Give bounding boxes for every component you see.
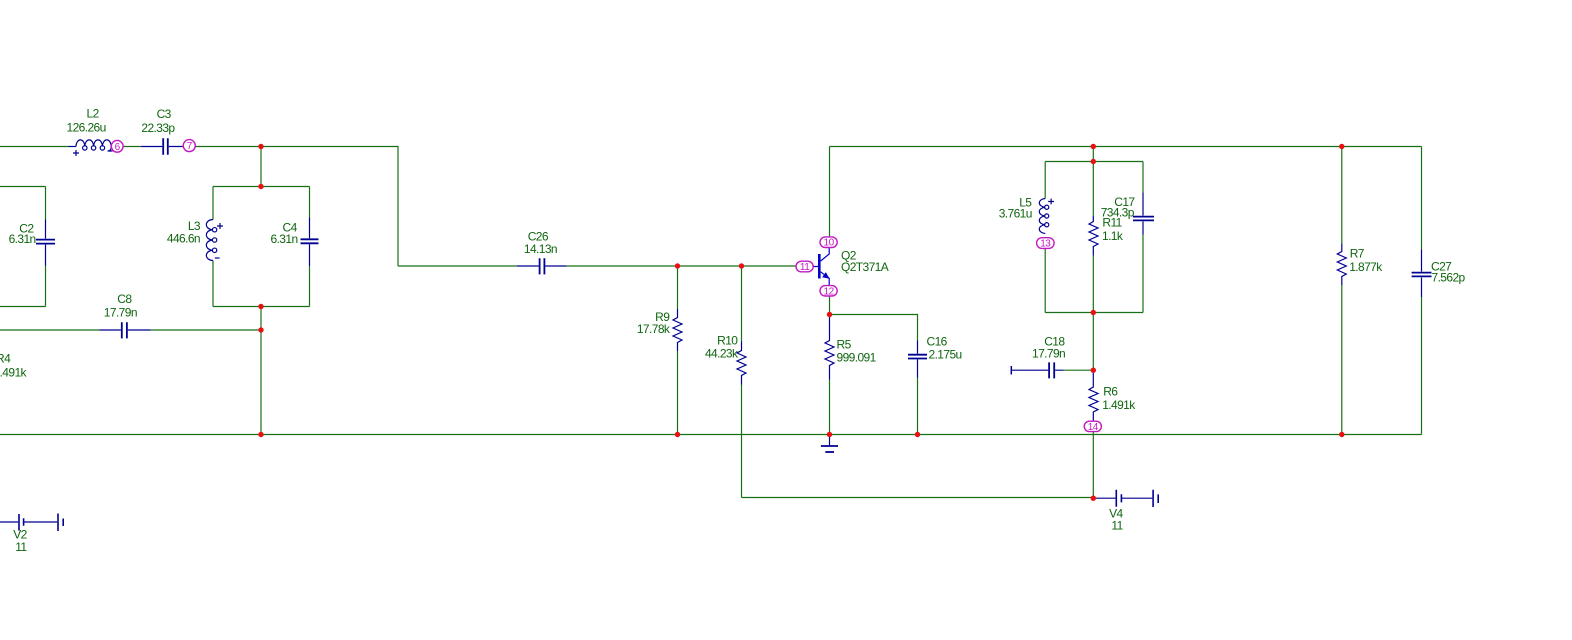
capacitor C27 — [1412, 250, 1432, 298]
wire box1 top edge — [0, 186, 46, 188]
resistor R10 — [737, 342, 746, 385]
node 13 — [1037, 238, 1055, 249]
node 10 — [820, 237, 837, 248]
wire box2 top edge — [213, 186, 310, 188]
wire top-right rail — [830, 146, 1422, 148]
wire C18 to node — [1064, 369, 1094, 371]
wire C16 lower — [917, 378, 919, 435]
svg-text:R6: R6 — [1103, 384, 1118, 398]
svg-text:14.13n: 14.13n — [524, 242, 557, 256]
svg-text:7.562p: 7.562p — [1432, 270, 1466, 284]
wire box1 right upper — [45, 187, 47, 220]
svg-text:17.78k: 17.78k — [637, 322, 671, 336]
wire node 7 to top junction — [196, 146, 399, 148]
svg-text:999.091: 999.091 — [837, 351, 877, 365]
svg-text:C16: C16 — [927, 334, 948, 348]
wire R10 to V4 node — [742, 497, 1094, 499]
inductor L5 — [1039, 199, 1054, 234]
wire box3 right lower — [1142, 235, 1144, 313]
svg-text:11: 11 — [1111, 519, 1123, 533]
svg-text:6.31n: 6.31n — [271, 232, 298, 246]
wire box3 top edge — [1045, 161, 1143, 163]
wire box2 right lower — [309, 266, 311, 307]
inductor L2 — [69, 140, 113, 156]
junction R7 top — [1339, 144, 1344, 149]
svg-text:10: 10 — [824, 238, 835, 249]
wire box2 bottom to C8 node — [260, 307, 262, 331]
svg-text:126.26u: 126.26u — [67, 121, 106, 135]
node 11 — [796, 261, 813, 272]
junction R9 bottom rail — [675, 432, 680, 437]
svg-text:1.491k: 1.491k — [1102, 398, 1136, 412]
wire top-left rail drop — [397, 147, 399, 267]
wire bottom rail — [0, 434, 1422, 436]
wire box3 middle upper — [1092, 162, 1094, 217]
wire node 12 to R5 junction — [829, 296, 831, 315]
svg-text:1.877k: 1.877k — [1349, 260, 1383, 274]
svg-text:11: 11 — [15, 540, 27, 554]
svg-text:Q2T371A: Q2T371A — [841, 260, 889, 274]
junction C18 node — [1091, 368, 1096, 373]
svg-text:R5: R5 — [837, 338, 852, 352]
battery V2 — [0, 514, 63, 532]
node 12 — [820, 286, 837, 296]
svg-text:R11: R11 — [1102, 216, 1122, 230]
resistor R5 — [825, 316, 834, 380]
resistor R9 — [673, 309, 682, 351]
capacitor C16 — [908, 341, 927, 378]
wire R9 lower lead — [677, 351, 679, 435]
wire box3 right upper — [1142, 162, 1144, 193]
wire box3 left lower — [1044, 249, 1046, 313]
junction at top rail x261 — [258, 144, 263, 149]
capacitor C17 — [1133, 193, 1154, 235]
junction R10 top — [739, 263, 744, 268]
wire C8 right — [151, 329, 262, 331]
junction bottom rail x261 — [258, 432, 263, 437]
junction top rail x1093 — [1091, 144, 1096, 149]
resistor R7 — [1337, 244, 1346, 286]
svg-text:R4: R4 — [0, 351, 11, 365]
svg-text:446.6n: 446.6n — [167, 231, 200, 245]
junction R7 bottom — [1339, 432, 1344, 437]
svg-text:11: 11 — [800, 262, 810, 273]
junction box2 bottom — [258, 304, 263, 309]
wire box2 right upper — [309, 187, 311, 218]
wire right riser — [1092, 147, 1094, 162]
junction box2 top — [258, 184, 263, 189]
junction C16 bottom rail — [915, 432, 920, 437]
svg-text:R7: R7 — [1350, 246, 1365, 260]
svg-text:2.175u: 2.175u — [929, 348, 962, 362]
wire box2 left lower — [212, 261, 214, 307]
wire box3 bottom to C18 node — [1092, 313, 1094, 371]
svg-text:14: 14 — [1088, 422, 1099, 433]
wire R9 upper lead — [677, 266, 679, 309]
svg-text:17.79n: 17.79n — [104, 306, 137, 320]
junction R5 C16 node — [827, 312, 832, 317]
junction ground rail — [827, 432, 832, 437]
capacitor C4 — [301, 218, 319, 267]
inductor L3 — [206, 220, 223, 261]
capacitor C2 — [36, 220, 55, 266]
wire Q2 collector riser — [829, 147, 831, 238]
node 6 — [111, 140, 123, 152]
wire C27 lower — [1421, 297, 1423, 435]
junction box3 top — [1091, 159, 1096, 164]
wire to C26 — [398, 265, 517, 267]
junction box3 bottom — [1091, 310, 1096, 315]
capacitor C3 — [141, 138, 183, 155]
wire R5 lower lead — [829, 380, 831, 435]
wire input lead left of L2 — [0, 146, 69, 148]
wire box1 bottom edge — [0, 306, 46, 308]
capacitor C18 — [1011, 362, 1064, 378]
wire box3 left upper — [1044, 162, 1046, 199]
wire R7 lower lead — [1341, 285, 1343, 435]
wire box3 bottom edge — [1045, 312, 1143, 314]
svg-text:44.23k: 44.23k — [705, 347, 739, 361]
wire C8 node to bottom rail — [260, 330, 262, 435]
wire box2 left upper — [212, 187, 214, 220]
capacitor C8 — [100, 322, 151, 338]
svg-text:13: 13 — [1040, 239, 1051, 250]
wire R10 upper lead — [741, 266, 743, 342]
wire box2 bottom edge — [213, 306, 310, 308]
svg-text:C8: C8 — [117, 292, 132, 306]
wire R10 lower lead — [741, 385, 743, 498]
wire box3 middle lower — [1092, 256, 1094, 313]
wire C8 left — [0, 329, 100, 331]
wire junction to C16 branch — [830, 315, 918, 341]
node 7 — [183, 140, 195, 152]
resistor R6 — [1089, 370, 1098, 421]
ground symbol — [821, 436, 838, 452]
wire C26 to node 11 — [566, 265, 796, 267]
svg-text:1.491k: 1.491k — [0, 365, 28, 379]
wire box1 right lower — [45, 266, 47, 307]
wire node 14 to V4 node — [1092, 432, 1094, 499]
junction C8 node — [258, 327, 263, 332]
junction R9 top — [675, 263, 680, 268]
wire C27 upper — [1421, 147, 1423, 250]
svg-text:6.31n: 6.31n — [9, 232, 36, 246]
svg-text:22.33p: 22.33p — [141, 121, 175, 135]
junction V4 node — [1091, 496, 1096, 501]
svg-text:3.761u: 3.761u — [999, 206, 1032, 220]
battery V4 — [1096, 490, 1158, 507]
capacitor C26 — [517, 258, 566, 274]
wire R7 upper lead — [1341, 147, 1343, 244]
svg-text:C3: C3 — [157, 107, 172, 121]
svg-text:12: 12 — [824, 286, 835, 297]
svg-text:1.1k: 1.1k — [1102, 229, 1124, 243]
wire node 6 to C3 — [123, 146, 141, 148]
wire junction to box2 top — [260, 147, 262, 187]
transistor Q2 — [813, 248, 829, 286]
svg-text:L2: L2 — [87, 107, 100, 121]
resistor R11 — [1089, 216, 1098, 256]
svg-text:17.79n: 17.79n — [1032, 347, 1065, 361]
node 14 — [1084, 421, 1101, 431]
